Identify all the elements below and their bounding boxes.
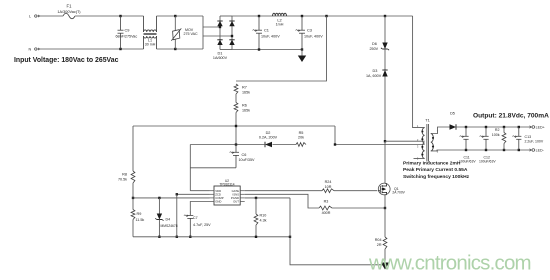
svg-text:C6: C6 <box>242 153 247 157</box>
wire HV rail to primary <box>413 16 425 128</box>
zener D6 <box>381 43 389 51</box>
svg-text:D3: D3 <box>373 69 378 73</box>
svg-text:C7: C7 <box>193 216 198 220</box>
svg-text:2R: 2R <box>377 243 382 247</box>
svg-text:R3: R3 <box>324 200 329 204</box>
fuse F1 <box>63 13 75 19</box>
node D4 top <box>158 197 160 199</box>
wire HV top rail <box>232 15 413 17</box>
pin stub right 4 <box>240 201 245 203</box>
capacitor C6 <box>230 145 239 168</box>
node R10 branch <box>255 197 257 199</box>
node R2 bottom <box>503 149 505 151</box>
wire gnd rail step <box>290 198 385 265</box>
svg-text:10R: 10R <box>325 185 332 189</box>
pin stub left 1 <box>210 190 215 192</box>
wire R2 upper <box>503 127 505 133</box>
wire AC stub lower <box>203 35 232 37</box>
svg-text:R5: R5 <box>299 131 304 135</box>
wire node to R9 <box>132 198 134 210</box>
svg-text:165k: 165k <box>242 108 250 112</box>
svg-text:Switching frequency 100kHz: Switching frequency 100kHz <box>403 174 470 180</box>
wire R10 drop <box>255 198 257 214</box>
svg-text:N: N <box>29 48 32 52</box>
resistor R10 <box>254 214 258 225</box>
wire comp run <box>245 197 290 199</box>
capacitor C3 <box>296 16 305 50</box>
terminal L <box>35 15 37 17</box>
svg-text:Peak Primary Current 0.55A: Peak Primary Current 0.55A <box>403 167 468 173</box>
capacitor C12 <box>480 127 489 150</box>
svg-text:400R: 400R <box>322 211 331 215</box>
wire R10 to rail <box>255 225 257 237</box>
svg-text:D2: D2 <box>266 131 271 135</box>
wire R6 down <box>235 113 237 145</box>
wire output rail top <box>456 126 532 128</box>
svg-text:D5: D5 <box>450 112 455 116</box>
svg-text:R6: R6 <box>242 104 247 108</box>
diode D1d (bridge bottom-right) <box>229 40 234 45</box>
node C11 top <box>465 126 467 128</box>
svg-text:0.2A, 200V: 0.2A, 200V <box>259 136 278 140</box>
wire R8 top <box>132 126 134 171</box>
svg-text:C13: C13 <box>525 135 532 139</box>
node C3 top <box>301 15 303 17</box>
svg-text:Primary Inductance 2mH: Primary Inductance 2mH <box>403 160 461 166</box>
terminal LED+ <box>532 126 535 129</box>
wire gate run <box>245 190 322 192</box>
svg-text:OUT: OUT <box>233 200 239 204</box>
node C13 top <box>518 126 520 128</box>
wire R3 to source <box>332 207 385 209</box>
wire R24 to gate <box>334 190 377 192</box>
phase dots primary winding <box>421 130 423 155</box>
terminal N <box>35 48 37 50</box>
pin stub left 2 <box>210 193 215 195</box>
node primary return <box>384 140 386 142</box>
wire primary bottom to drain node <box>385 140 425 142</box>
svg-text:Input Voltage: 180Vac to 265V: Input Voltage: 180Vac to 265Vac <box>14 57 119 64</box>
node R10 bottom <box>255 236 257 238</box>
node comp branch <box>176 193 178 195</box>
svg-text:1mH: 1mH <box>276 22 284 26</box>
capacitor C1 <box>253 16 262 50</box>
capacitor C13 <box>512 127 521 150</box>
svg-text:100uF/63V: 100uF/63V <box>459 160 476 164</box>
node vdd row left <box>132 197 134 199</box>
node bridge AC left <box>219 26 221 28</box>
node zcd corner <box>334 143 336 145</box>
svg-text:F1: F1 <box>67 4 73 9</box>
svg-text:R8: R8 <box>122 173 127 177</box>
transformer T1 secondary winding <box>431 134 434 151</box>
diode D1a (bridge top-left) <box>217 21 222 26</box>
node C9 bottom <box>119 48 121 50</box>
resistor R04 <box>383 237 387 249</box>
svg-text:2.2uF, 100V: 2.2uF, 100V <box>525 140 544 144</box>
svg-text:4.7uF, 25V: 4.7uF, 25V <box>193 223 211 227</box>
svg-text:70.5k: 70.5k <box>118 177 127 181</box>
wire AC stub upper <box>203 26 220 28</box>
diode D5 <box>450 124 457 129</box>
svg-text:275 VAC: 275 VAC <box>184 32 199 36</box>
wire bridge top rail <box>220 15 232 17</box>
wire zcd upper run <box>133 125 335 127</box>
svg-text:C9: C9 <box>125 28 130 33</box>
wire R7 R6 <box>235 94 237 103</box>
svg-text:20k: 20k <box>298 136 304 140</box>
wire D4 upper <box>158 198 160 214</box>
svg-text:L: L <box>29 15 31 19</box>
svg-text:LED-: LED- <box>536 148 545 152</box>
node C1 top <box>258 15 260 17</box>
transformer T1 primary winding <box>422 128 424 159</box>
wire N to choke <box>40 48 144 50</box>
diode D2 <box>265 142 272 147</box>
resistor R2 <box>502 133 506 144</box>
svg-text:D4: D4 <box>166 218 171 222</box>
wire aux bottom stub <box>414 158 425 160</box>
svg-text:30 mH: 30 mH <box>145 42 156 46</box>
pin stub left 3 <box>210 197 215 199</box>
capacitor C9 <box>118 16 124 49</box>
svg-text:10uF, 400V: 10uF, 400V <box>304 35 323 39</box>
node clamp top <box>384 15 386 17</box>
node rail step <box>289 236 291 238</box>
node C6 top <box>235 143 237 145</box>
svg-text:165k: 165k <box>242 90 250 94</box>
wire clamp mid <box>384 49 386 70</box>
wire vdd row <box>133 197 210 199</box>
svg-text:R9: R9 <box>137 212 142 216</box>
wire secondary bottom <box>431 149 532 152</box>
wire R9 to rail <box>132 220 134 237</box>
wire D2 to C6 node <box>190 144 265 146</box>
inductor L2 <box>273 13 287 16</box>
wire R2 lower <box>503 144 505 151</box>
resistor R9 <box>131 210 135 220</box>
wire bridge bottom rail <box>220 49 232 51</box>
svg-text:250V: 250V <box>370 47 379 51</box>
wire zcd corner <box>334 126 336 145</box>
wire isns run <box>245 194 319 208</box>
resistor R6 <box>234 103 238 113</box>
svg-text:1A/600V: 1A/600V <box>213 56 228 60</box>
node MOV bottom <box>174 48 176 50</box>
node vdd feed <box>235 125 237 127</box>
wire fuse to choke <box>75 15 144 17</box>
svg-text:C1: C1 <box>264 28 269 33</box>
ground (main) <box>381 263 389 270</box>
choke L1 <box>144 16 157 49</box>
wire top rail choke to MOV box <box>157 15 204 17</box>
wire DC bottom rail <box>232 49 302 51</box>
svg-text:1A/300Vac(T): 1A/300Vac(T) <box>57 10 81 14</box>
wire pin ZCD run <box>177 193 210 195</box>
svg-text:www.cntronics.com: www.cntronics.com <box>368 252 531 275</box>
node C9 top <box>119 15 121 17</box>
wire D4 lower <box>158 220 160 237</box>
zener D4 <box>155 214 163 221</box>
svg-text:R24: R24 <box>325 180 332 184</box>
svg-text:Output: 21.8Vdc, 700mA: Output: 21.8Vdc, 700mA <box>473 112 549 119</box>
wire comp drop <box>176 194 178 237</box>
svg-text:68nF/275Vac: 68nF/275Vac <box>116 35 138 39</box>
node C7 bottom <box>189 236 191 238</box>
node bridge AC right <box>231 35 233 37</box>
svg-text:C3: C3 <box>307 28 312 33</box>
wire bridge right column <box>231 16 233 50</box>
node source sense <box>384 207 386 209</box>
node C11 bottom <box>465 149 467 151</box>
node C3 bottom <box>301 48 303 50</box>
diode D1b (bridge top-right) <box>229 21 234 26</box>
capacitor C7 <box>184 211 193 237</box>
svg-text:MMSZ4678: MMSZ4678 <box>161 224 178 228</box>
svg-text:D6: D6 <box>372 42 377 46</box>
svg-text:10uF, 400V: 10uF, 400V <box>261 35 280 39</box>
node D4 bottom <box>158 236 160 238</box>
svg-text:R7: R7 <box>242 86 247 90</box>
svg-text:4.3k: 4.3k <box>260 219 267 223</box>
node startup tap <box>325 15 327 17</box>
node C1 bottom <box>258 48 260 50</box>
pin stub right 3 <box>240 197 245 199</box>
wire bottom rail choke to MOV box <box>157 48 204 50</box>
svg-text:11.5k: 11.5k <box>136 218 145 222</box>
svg-text:D1: D1 <box>218 51 223 56</box>
svg-text:R2: R2 <box>495 128 500 132</box>
terminal LED- <box>532 149 535 152</box>
node R2 top <box>503 126 505 128</box>
wire gnd row to C7 <box>190 202 209 212</box>
svg-text:LED+: LED+ <box>536 125 545 129</box>
node C12 top <box>485 126 487 128</box>
resistor R24 <box>322 189 334 193</box>
wire R5 to D2 <box>273 144 297 146</box>
wire aux top <box>335 144 425 146</box>
transistor Q1 <box>378 183 390 195</box>
resistor R5 <box>296 143 306 147</box>
svg-text:GND: GND <box>215 200 221 204</box>
wire gnd rail left <box>133 236 290 238</box>
svg-text:T1: T1 <box>425 118 430 123</box>
diode D1c (bridge bottom-left) <box>217 40 222 45</box>
op-amp U2 TPS92314 body <box>214 186 240 205</box>
node C12 bottom <box>485 149 487 151</box>
wire L to fuse <box>40 15 64 17</box>
diode D3 <box>382 70 387 77</box>
resistor R8 <box>131 171 135 183</box>
svg-text:10uF/35V: 10uF/35V <box>239 158 256 162</box>
wire clamp column upper <box>384 16 386 43</box>
node MOV top <box>174 15 176 17</box>
svg-text:TPS92314: TPS92314 <box>219 183 234 187</box>
wire zcd drop to pin <box>189 145 191 191</box>
svg-text:100k: 100k <box>492 133 500 137</box>
resistor R3 <box>319 206 332 210</box>
node comp drop bottom <box>176 236 178 238</box>
wire C3 to ground <box>301 50 303 56</box>
transformer T1 core <box>427 124 429 162</box>
wire source column <box>385 195 387 237</box>
svg-text:2A 700V: 2A 700V <box>392 191 405 195</box>
ground (input filter) <box>298 56 306 63</box>
wire secondary top <box>431 127 450 134</box>
wire MOV branch <box>174 16 176 49</box>
wire R04 to ground <box>384 249 386 265</box>
pin stub left 4 <box>210 201 215 203</box>
svg-text:100uF/63V: 100uF/63V <box>479 160 496 164</box>
wire pin VDD to C6 branch <box>190 190 209 192</box>
capacitor C11 <box>460 127 469 150</box>
wire drain column <box>384 77 386 142</box>
resistor R7 <box>234 84 238 94</box>
wire MOV box right edge <box>202 16 204 49</box>
varistor MOV <box>171 28 181 40</box>
wire C6 bottom run <box>190 167 236 169</box>
wire startup drop <box>236 16 327 81</box>
pin stub right 1 <box>240 190 245 192</box>
svg-text:MOV: MOV <box>185 28 194 32</box>
svg-text:R04: R04 <box>375 238 382 242</box>
svg-text:1A, 600V: 1A, 600V <box>366 74 382 78</box>
phase dots secondary winding <box>432 137 434 148</box>
svg-text:R10: R10 <box>260 214 267 218</box>
wire drain into Q1 <box>385 141 387 183</box>
pin stub right 2 <box>240 193 245 195</box>
wire R8 to node <box>132 183 134 198</box>
node C13 bottom <box>518 149 520 151</box>
wire bridge left column <box>219 16 221 50</box>
